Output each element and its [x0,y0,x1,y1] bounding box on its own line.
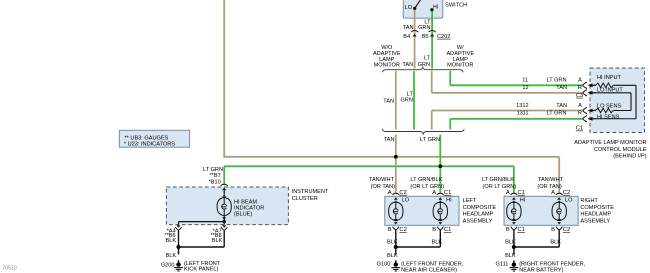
svg-text:R: R [578,85,582,91]
svg-text:BLK: BLK [505,240,516,246]
svg-text:* U23: INDICATORS: * U23: INDICATORS [124,142,175,148]
svg-text:B: B [506,227,510,233]
svg-text:LT GRN: LT GRN [420,137,440,143]
svg-text:BLK: BLK [387,253,398,259]
svg-text:B4: B4 [403,34,410,40]
svg-text:CONTROL MODULE: CONTROL MODULE [594,147,647,153]
svg-text:BLK: BLK [166,238,177,244]
svg-text:MONITOR: MONITOR [447,63,473,69]
svg-text:NEAR AIR CLEANER): NEAR AIR CLEANER) [401,267,457,273]
svg-text:CLUSTER: CLUSTER [292,196,318,202]
svg-text:ASSEMBLY: ASSEMBLY [580,218,610,224]
svg-text:SWITCH: SWITCH [445,2,467,8]
svg-text:TAN: TAN [403,25,414,31]
svg-text:R: R [578,110,582,116]
svg-text:1311: 1311 [517,110,529,116]
svg-text:C1: C1 [444,190,451,196]
svg-text:C1: C1 [518,227,525,233]
svg-text:12: 12 [522,85,528,91]
svg-text:HEADLAMP: HEADLAMP [580,212,611,218]
svg-text:ADAPTIVE LAMP MONITOR: ADAPTIVE LAMP MONITOR [574,140,646,146]
svg-text:LO: LO [565,198,573,204]
svg-text:G111: G111 [496,262,509,268]
svg-text:C1: C1 [518,190,525,196]
svg-text:B: B [551,227,555,233]
svg-text:HI SENS: HI SENS [597,114,620,120]
svg-text:(OR LT GRN): (OR LT GRN) [410,184,444,190]
svg-text:C2: C2 [563,190,570,196]
svg-text:KICK PANEL): KICK PANEL) [184,267,219,273]
svg-text:11: 11 [522,77,528,83]
svg-text:1312: 1312 [516,103,528,109]
svg-text:ASSEMBLY: ASSEMBLY [463,218,493,224]
svg-text:C2: C2 [399,227,406,233]
svg-text:G200: G200 [161,262,175,268]
svg-text:A: A [578,77,582,83]
svg-text:C2: C2 [399,190,406,196]
svg-text:GRN: GRN [418,25,430,31]
svg-text:A: A [551,190,555,196]
svg-text:HI: HI [520,198,526,204]
svg-text:COMPOSITE: COMPOSITE [463,205,497,211]
svg-text:LO INPUT: LO INPUT [597,87,623,93]
svg-text:HI: HI [446,198,452,204]
svg-text:LT GRN/BLK: LT GRN/BLK [410,177,442,183]
svg-text:(OR LT GRN): (OR LT GRN) [483,184,517,190]
svg-text:TAN: TAN [402,62,413,68]
svg-text:*B10: *B10 [209,180,221,186]
svg-text:B5: B5 [422,34,429,40]
svg-text:INSTRUMENT: INSTRUMENT [292,189,329,195]
svg-text:C3: C3 [576,93,583,99]
svg-text:G100: G100 [377,262,391,268]
svg-text:B: B [388,227,392,233]
svg-text:LEFT: LEFT [463,198,477,204]
svg-text:70510: 70510 [2,266,17,272]
svg-text:A: A [432,190,436,196]
svg-text:HEADLAMP: HEADLAMP [463,212,494,218]
svg-text:B: B [432,227,436,233]
svg-text:BLK: BLK [212,238,223,244]
svg-text:GRN: GRN [400,98,412,104]
svg-text:TAN/WHT: TAN/WHT [369,177,395,183]
svg-text:LO: LO [402,198,410,204]
svg-text:BLK: BLK [166,253,177,259]
svg-text:LT GRN/BLK: LT GRN/BLK [482,177,514,183]
svg-text:TAN: TAN [556,103,567,109]
svg-text:TAN/WHT: TAN/WHT [538,177,564,183]
svg-text:(OR TAN): (OR TAN) [371,184,395,190]
svg-text:C2: C2 [563,227,570,233]
svg-text:NEAR BATTERY): NEAR BATTERY) [519,267,563,273]
svg-text:LO SENS: LO SENS [597,103,622,109]
svg-text:BLK: BLK [550,240,561,246]
svg-text:TAN: TAN [383,98,394,104]
svg-text:A: A [506,190,510,196]
svg-text:BLK: BLK [505,253,516,259]
svg-text:(BEHIND I/P): (BEHIND I/P) [613,154,646,160]
svg-text:LT GRN: LT GRN [547,77,567,83]
svg-text:**B7: **B7 [209,173,220,179]
svg-text:RIGHT: RIGHT [580,198,598,204]
svg-text:LT: LT [424,55,431,61]
svg-text:GRN: GRN [418,62,430,68]
svg-text:C1: C1 [576,126,583,132]
svg-text:LT GRN: LT GRN [547,110,567,116]
svg-text:C1: C1 [444,227,451,233]
svg-text:BLK: BLK [432,240,443,246]
svg-text:(OR TAN): (OR TAN) [537,184,561,190]
svg-text:A: A [388,190,392,196]
svg-text:MONITOR: MONITOR [374,63,400,69]
svg-text:HI BEAM: HI BEAM [234,199,257,205]
svg-text:COMPOSITE: COMPOSITE [580,205,614,211]
svg-text:LT: LT [407,91,414,97]
svg-text:TAN: TAN [556,85,567,91]
svg-text:INDICATOR: INDICATOR [234,206,264,212]
svg-text:C202: C202 [437,34,450,40]
svg-text:(BLUE): (BLUE) [234,212,252,218]
svg-text:HI INPUT: HI INPUT [597,75,622,81]
svg-text:HI: HI [433,5,438,11]
svg-text:BLK: BLK [387,240,398,246]
svg-text:A: A [578,103,582,109]
svg-text:TAN: TAN [384,137,395,143]
svg-text:LO: LO [405,5,413,11]
